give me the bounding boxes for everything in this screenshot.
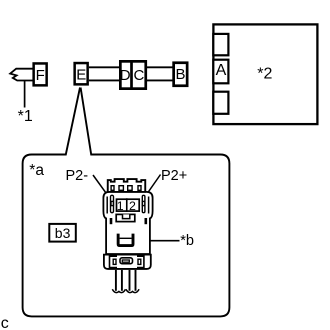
connector b3: ears and main body silhouette: [103, 192, 152, 254]
housing slot 2: [119, 186, 123, 191]
svg-text:P2+: P2+: [161, 168, 187, 184]
leader line P2-: [93, 175, 111, 200]
U-slot in body: [118, 234, 133, 246]
connector F: [34, 63, 47, 85]
housing slot 4: [138, 186, 141, 191]
svg-text:D: D: [120, 67, 131, 84]
svg-text:P2-: P2-: [66, 168, 89, 184]
slot bottom: [213, 92, 228, 114]
pin housing: [117, 199, 140, 211]
latch tab left: [111, 201, 113, 205]
ear inner wall right: [148, 197, 150, 214]
ear inner wall left: [106, 197, 108, 214]
left latch: [111, 195, 114, 212]
side mark right: [145, 219, 146, 224]
wire 1: [112, 270, 125, 293]
slot top: [213, 34, 228, 55]
bottom bracket left: [110, 256, 118, 267]
svg-text:2: 2: [129, 199, 136, 213]
housing slot 1: [111, 186, 114, 191]
svg-text:*2: *2: [257, 66, 272, 83]
svg-text:B: B: [175, 66, 185, 83]
off-page arrow connector: [10, 69, 34, 81]
right latch: [142, 195, 145, 212]
svg-text:b3: b3: [55, 225, 71, 241]
housing slot 3: [128, 186, 132, 191]
connector A: [213, 60, 228, 84]
svg-text:F: F: [36, 67, 45, 84]
lock below pins: [116, 214, 135, 221]
bottom bracket right: [137, 256, 144, 267]
wire 2: [126, 270, 139, 293]
svg-text:*1: *1: [18, 108, 33, 125]
wire E-D: [89, 67, 120, 80]
connector B: [174, 63, 188, 86]
connector E: [75, 63, 88, 84]
svg-text:*b: *b: [180, 233, 194, 249]
connector b3: bottom section: [104, 255, 151, 269]
label b3: [49, 224, 76, 242]
svg-text:1: 1: [117, 199, 124, 213]
wire C-B: [147, 67, 174, 80]
svg-text:A: A: [216, 62, 227, 79]
leader line P2+: [143, 175, 161, 200]
connector b3: top housing with crenellated top: [108, 179, 146, 192]
svg-text:E: E: [76, 67, 86, 84]
latch tab right: [142, 201, 144, 205]
leader line to *1: [24, 81, 26, 108]
ECU block *2: [213, 24, 317, 124]
svg-text:*a: *a: [29, 162, 44, 179]
svg-text:c: c: [1, 315, 9, 330]
connector D and C shared housing: [120, 61, 145, 88]
bottom center piece: [120, 258, 133, 264]
side mark left: [110, 219, 111, 224]
svg-text:C: C: [133, 67, 144, 84]
callout balloon with pointer to E: [23, 88, 230, 317]
leader line *b: [150, 240, 180, 242]
